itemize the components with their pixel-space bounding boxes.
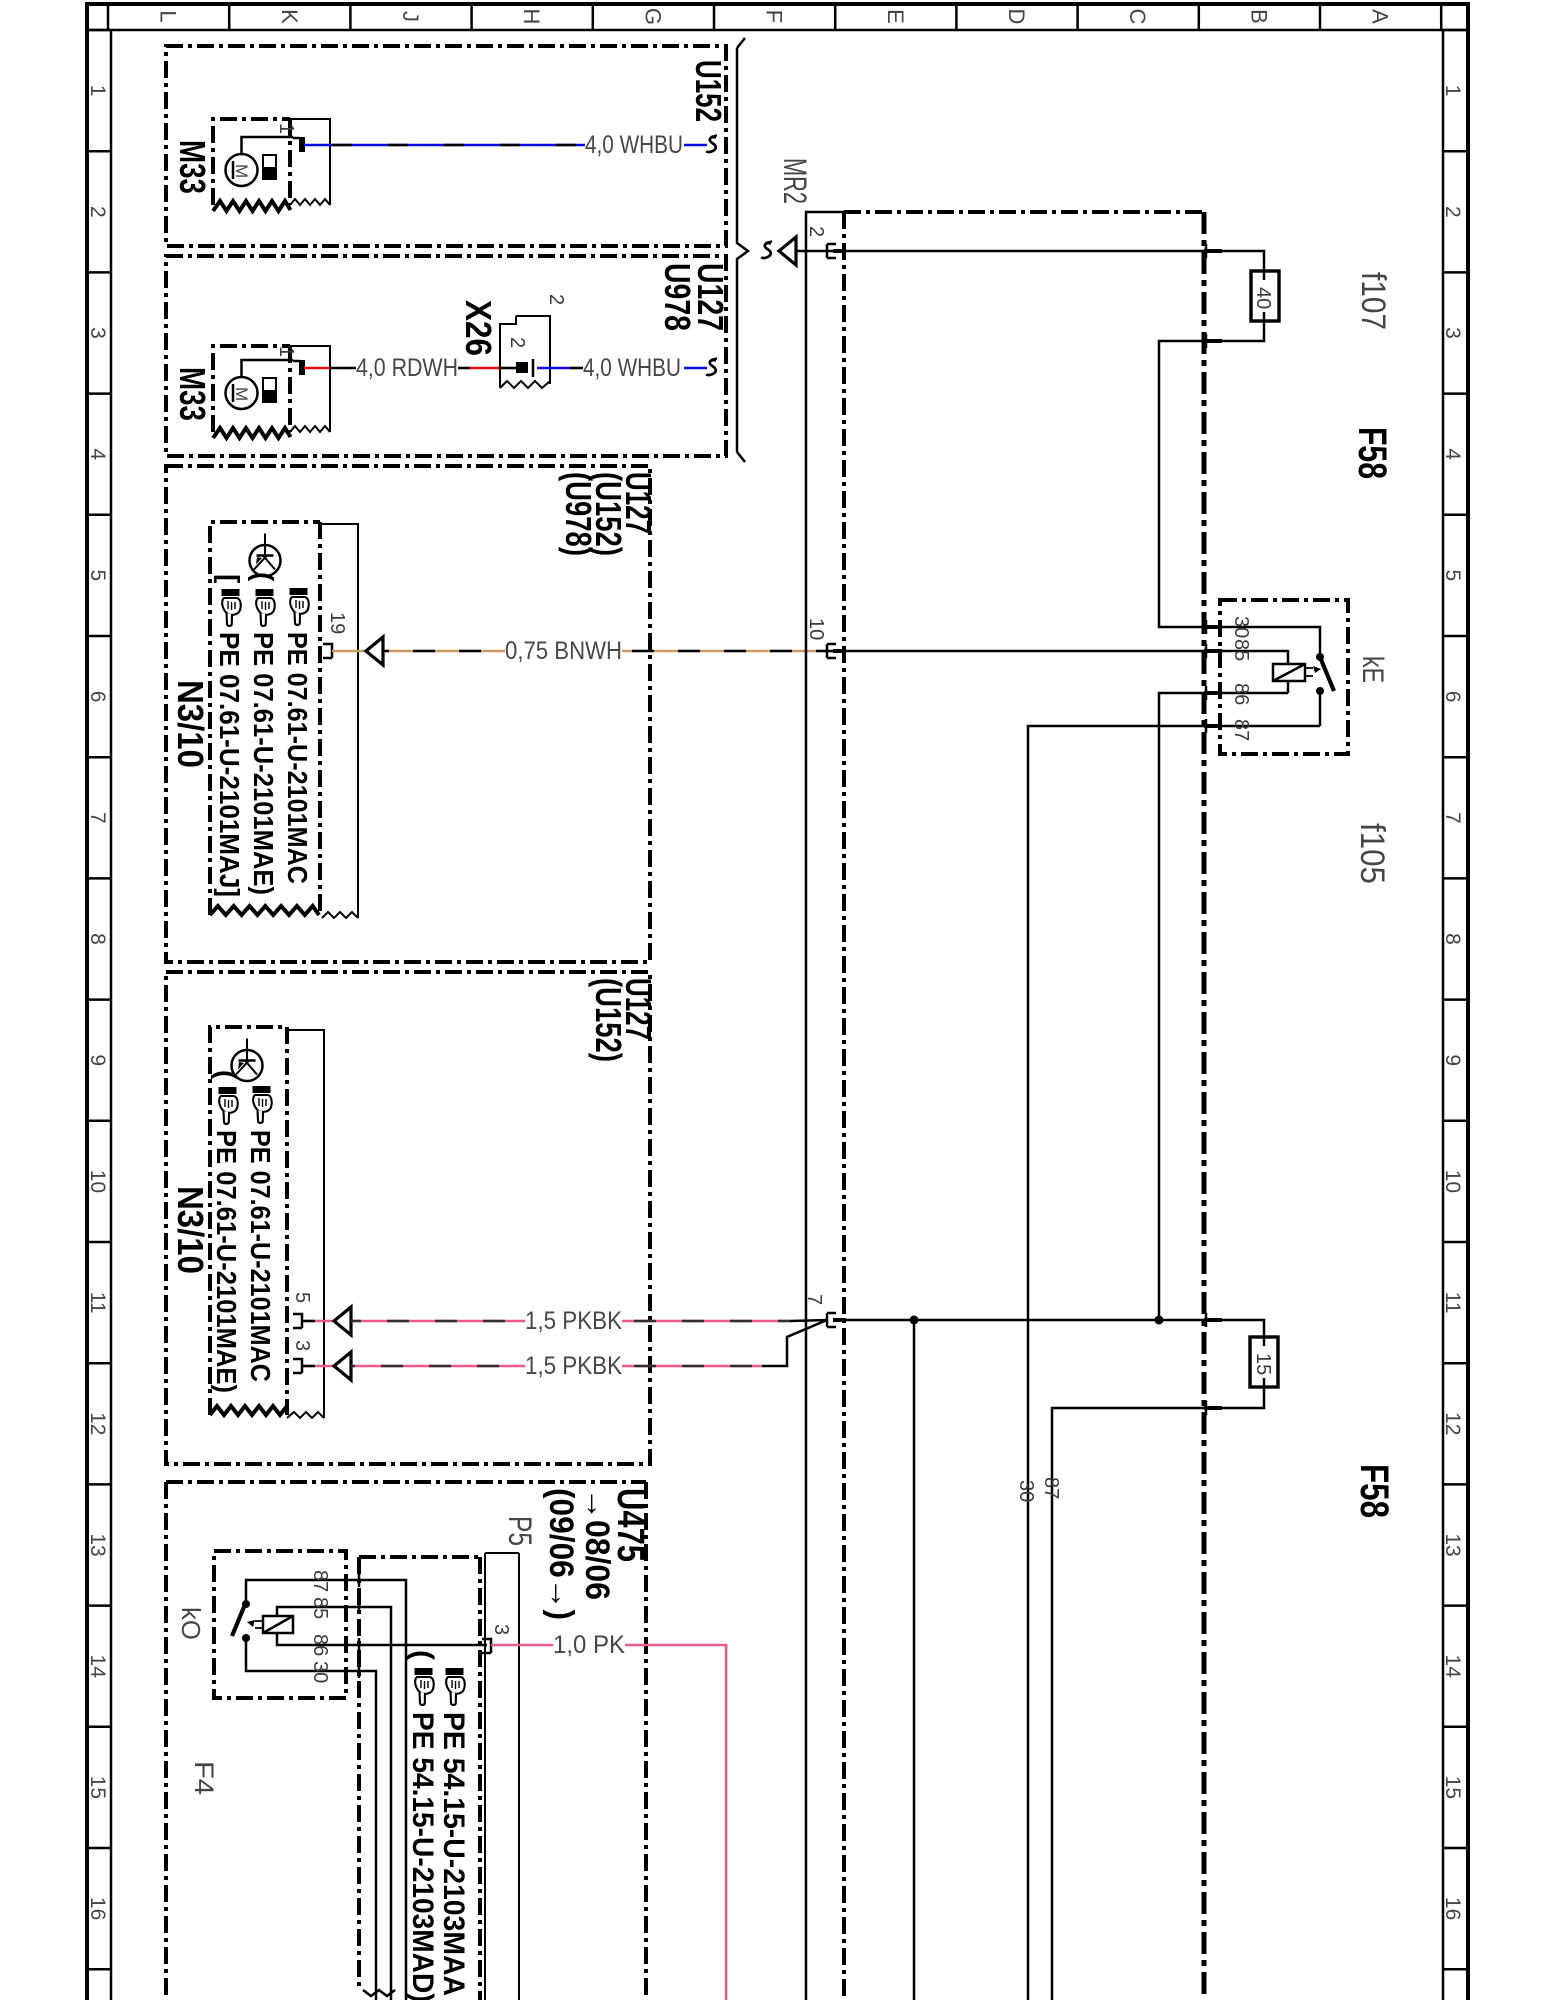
hand + (PE 54.15-U-2103MAD):	[406, 1650, 439, 2000]
svg-text:F4: F4	[189, 1761, 219, 1795]
svg-text:(U978): (U978)	[558, 472, 599, 556]
component M33 (wiper motor) box 2	[213, 346, 291, 438]
pin 1 bracket (M33 2)	[293, 360, 300, 363]
svg-text:(: (	[406, 1650, 439, 1660]
svg-text:12: 12	[86, 1412, 109, 1435]
svg-text:11: 11	[86, 1292, 109, 1314]
wire M33(2) to pin 1	[242, 360, 294, 377]
svg-text:86: 86	[1230, 683, 1252, 705]
wire fuse 40 bottom to kE pin 30	[1159, 321, 1320, 655]
svg-text:C: C	[1125, 9, 1150, 25]
wire pin3 to triangle	[302, 1365, 334, 1368]
hand + (PE 07.61-U-2101MAE) (2)	[211, 1070, 242, 1393]
svg-text:0,75 BNWH: 0,75 BNWH	[505, 637, 622, 665]
svg-text:6: 6	[86, 691, 109, 703]
companion solid box N3/10 (2)	[287, 1030, 324, 1418]
hand + [PE 07.61-U-2101MAJ] (1)	[214, 574, 245, 897]
svg-text:5: 5	[86, 570, 109, 582]
svg-text:10: 10	[1441, 1170, 1464, 1193]
wire 0,75 BNWH	[383, 650, 836, 653]
box U127 U978 (dash-dot)	[166, 256, 726, 456]
wire kO 85 down	[346, 1607, 391, 2000]
pin 19 bracket	[323, 644, 332, 658]
wire 4,0 WHBU (row 2)	[537, 367, 707, 370]
svg-text:M: M	[232, 164, 251, 178]
continuation triangle (pin 3)	[334, 1352, 351, 1380]
svg-text:9: 9	[86, 1054, 109, 1066]
wire fuse 15 bottom to line 87	[1052, 1387, 1264, 2000]
wire BNWH continues to kE pin 85	[846, 650, 1288, 653]
hook wire end (row 2)	[706, 358, 717, 375]
companion solid box M33 (2)	[290, 346, 330, 432]
svg-text:87: 87	[309, 1570, 331, 1592]
svg-text:M: M	[232, 387, 251, 401]
svg-text:PE 54.15-U-2103MAA: PE 54.15-U-2103MAA	[437, 1712, 470, 1996]
kE bus bracket pin 86	[1205, 686, 1208, 700]
junction dot (x=914)	[910, 1316, 919, 1325]
svg-text:PE 54.15-U-2103MAD):: PE 54.15-U-2103MAD):	[406, 1712, 439, 2000]
svg-text:19: 19	[326, 612, 348, 634]
svg-text:3: 3	[490, 1624, 512, 1635]
hand + PE 54.15-U-2103MAA	[437, 1668, 470, 1996]
svg-text:N3/10: N3/10	[170, 1186, 211, 1274]
wire pin5 to triangle	[302, 1320, 334, 1323]
motor symbol M33 (2)	[226, 377, 277, 409]
svg-text:U152: U152	[688, 60, 729, 122]
svg-text:F: F	[762, 10, 787, 23]
P5 pin 3 bracket	[482, 1639, 491, 1653]
svg-text:PE 07.61-U-2101MAJ]: PE 07.61-U-2101MAJ]	[214, 632, 245, 897]
svg-text:2: 2	[86, 206, 109, 218]
svg-text:5: 5	[291, 1292, 313, 1303]
svg-text:D: D	[1004, 9, 1029, 25]
svg-text:E: E	[883, 9, 908, 24]
box U152 (dash-dot)	[166, 46, 726, 246]
P5 solid box	[485, 1553, 519, 2000]
svg-text:L: L	[156, 10, 181, 22]
svg-text:10: 10	[86, 1170, 109, 1193]
svg-text:8: 8	[86, 933, 109, 945]
svg-text:G: G	[640, 8, 665, 25]
svg-text:1,5 PKBK: 1,5 PKBK	[525, 1307, 622, 1335]
svg-text:6: 6	[1441, 691, 1464, 703]
wire 1,5 PKBK (lower)	[351, 1365, 762, 1368]
svg-text:9: 9	[1441, 1054, 1464, 1066]
svg-text:2: 2	[545, 294, 567, 305]
wire stub to triangle	[332, 650, 366, 653]
kE internals	[1273, 650, 1334, 726]
bottom cut zigzag P5	[363, 1990, 395, 1996]
svg-text:1: 1	[275, 346, 297, 357]
svg-text:B: B	[1246, 9, 1271, 24]
svg-text:4,0 RDWH: 4,0 RDWH	[356, 354, 458, 382]
svg-text:11: 11	[1441, 1292, 1464, 1314]
pin 10 bracket on F58	[827, 644, 836, 658]
svg-text:K: K	[277, 9, 302, 24]
svg-text:MR2: MR2	[777, 158, 813, 204]
svg-text:12: 12	[1441, 1412, 1464, 1435]
svg-text:PE 07.61-U-2101MAE): PE 07.61-U-2101MAE)	[211, 1130, 242, 1393]
svg-text:kO: kO	[176, 1607, 206, 1640]
wire MR2 to pin 2 of F58	[796, 250, 836, 253]
svg-text:X26: X26	[458, 300, 499, 356]
wire kE pin 86	[1159, 693, 1288, 1320]
wire from F58 corner down (vertical at x=806)	[806, 212, 844, 2000]
motor symbol M33 (1)	[226, 154, 277, 186]
wire kE pin 87	[1028, 726, 1320, 2000]
svg-text:1,0 PK: 1,0 PK	[553, 1631, 625, 1659]
svg-text:A: A	[1368, 9, 1393, 24]
X26 pin 2 contact	[516, 362, 528, 373]
wire pin2 to fuse f107	[846, 251, 1264, 271]
transistor symbol (2)	[232, 1039, 263, 1082]
bus bracket (fuse 40 top)	[1205, 244, 1208, 258]
svg-text:16: 16	[86, 1897, 109, 1920]
wire 1,5 PKBK (upper)	[351, 1320, 828, 1321]
wire kO 87 down	[346, 1580, 406, 2000]
pin 1 bracket (M33 1)	[293, 137, 300, 140]
bus bracket (fuse 40 bottom)	[1205, 334, 1208, 348]
kE bus bracket pin 87	[1205, 719, 1208, 733]
svg-text:J: J	[398, 11, 423, 22]
continuation triangle (pin 19)	[366, 637, 383, 665]
svg-text:1: 1	[1441, 85, 1464, 97]
hook wire end (row 1)	[706, 135, 717, 152]
F58 bus line	[1202, 212, 1207, 2000]
companion solid box M33 (1)	[290, 119, 330, 205]
continuation triangle MR2	[779, 237, 796, 265]
fuse f107 (40)	[1251, 271, 1279, 321]
relay kO internals	[232, 1580, 346, 1671]
wire kO 30 down	[346, 1671, 376, 2000]
relay kO box dash-dot	[214, 1551, 346, 1698]
relay kE box dash-dot	[1220, 600, 1348, 754]
bus bracket (fuse 15 bottom)	[1205, 1401, 1208, 1415]
grouping brace for U152/U127 boxes	[737, 38, 748, 462]
svg-text:1: 1	[275, 123, 297, 134]
svg-text:U978: U978	[657, 263, 698, 331]
svg-text:30: 30	[1015, 1480, 1037, 1502]
companion solid box N3/10 (1)	[320, 524, 358, 918]
svg-text:15: 15	[1252, 1353, 1274, 1375]
kE bus bracket pin 85	[1205, 644, 1208, 658]
control unit N3/10 box (1)	[210, 522, 320, 915]
svg-text:(: (	[248, 572, 279, 582]
hand + (PE 07.61-U-2101MAE) (1)	[248, 572, 279, 895]
svg-text:3: 3	[291, 1340, 313, 1351]
hook at brace apex	[761, 241, 772, 258]
transistor symbol (1)	[250, 534, 281, 577]
svg-text:10: 10	[805, 618, 827, 640]
control unit N3/10 box (2)	[210, 1027, 287, 1415]
svg-text:4: 4	[1441, 448, 1464, 460]
pin 2 bracket on F58	[827, 244, 836, 258]
P5 connector dash-dot box	[359, 1557, 480, 2000]
fuse f105 (15)	[1250, 1337, 1278, 1387]
svg-text:(U152): (U152)	[588, 978, 629, 1062]
svg-text:85: 85	[1230, 639, 1252, 661]
svg-text:87: 87	[1040, 1477, 1062, 1499]
pin 5 bracket	[293, 1314, 302, 1328]
continuation triangle (pin 5)	[334, 1307, 351, 1335]
svg-text:F58: F58	[1352, 1464, 1396, 1518]
bus bracket (fuse 15 top)	[1205, 1313, 1208, 1327]
svg-text:4,0 WHBU: 4,0 WHBU	[585, 131, 683, 159]
kE bus bracket pin 30	[1205, 620, 1208, 634]
svg-text:40: 40	[1252, 287, 1274, 309]
junction dot (x=1159)	[1155, 1316, 1164, 1325]
hand + PE 07.61-U-2101MAC (1)	[282, 588, 313, 884]
wire 4,0 WHBU (row 1)	[304, 144, 707, 147]
svg-text:PE 07.61-U-2101MAC: PE 07.61-U-2101MAC	[282, 632, 313, 884]
P5 pin brackets for kO wires	[358, 1573, 361, 1678]
svg-text:4: 4	[86, 448, 109, 460]
svg-text:3: 3	[86, 327, 109, 339]
svg-text:5: 5	[1441, 570, 1464, 582]
svg-text:3: 3	[1441, 327, 1464, 339]
wire down from junction x=914	[913, 1320, 916, 2000]
box U127 (U152) dash-dot	[166, 972, 650, 1464]
svg-text:2: 2	[805, 226, 827, 237]
svg-text:13: 13	[1441, 1533, 1464, 1556]
svg-text:H: H	[519, 9, 544, 25]
wire kO 86 to P5 pin 3	[346, 1644, 487, 1647]
svg-text:N3/10: N3/10	[170, 680, 211, 768]
svg-text:7: 7	[86, 812, 109, 824]
svg-text:→08/06: →08/06	[578, 1488, 616, 1600]
svg-text:P5: P5	[502, 1516, 538, 1546]
svg-text:M33: M33	[172, 367, 213, 421]
wire pin7 line to fuse 15	[846, 1320, 1264, 1337]
wire 4,0 RDWH	[304, 367, 516, 370]
svg-text:F58: F58	[1350, 427, 1394, 479]
svg-text:2: 2	[506, 337, 528, 348]
pin 7 bracket on F58	[827, 1313, 836, 1327]
svg-text:f107: f107	[1354, 272, 1392, 330]
svg-text:1,5 PKBK: 1,5 PKBK	[525, 1352, 622, 1380]
svg-text:1: 1	[86, 85, 109, 97]
svg-text:86: 86	[309, 1634, 331, 1656]
svg-text:8: 8	[1441, 933, 1464, 945]
svg-text:M33: M33	[172, 140, 213, 194]
box F58 dash-dot	[844, 210, 1204, 214]
box U475 dash-dot	[166, 1482, 646, 2000]
svg-text:4,0 WHBU: 4,0 WHBU	[583, 354, 681, 382]
svg-text:30: 30	[309, 1661, 331, 1683]
svg-text:13: 13	[86, 1533, 109, 1556]
svg-text:15: 15	[86, 1776, 109, 1799]
svg-text:87: 87	[1230, 719, 1252, 741]
svg-text:PE 07.61-U-2101MAC: PE 07.61-U-2101MAC	[245, 1130, 276, 1382]
svg-text:[: [	[214, 574, 245, 583]
svg-text:(09/06→): (09/06→)	[542, 1488, 580, 1620]
pin 3 bracket	[293, 1359, 302, 1373]
svg-text:14: 14	[1441, 1655, 1464, 1679]
svg-text:16: 16	[1441, 1897, 1464, 1920]
wire M33(1) to pin 1	[242, 137, 294, 154]
svg-text:PE 07.61-U-2101MAE): PE 07.61-U-2101MAE)	[248, 632, 279, 895]
component M33 (wiper motor) box 1	[213, 119, 291, 211]
svg-text:(: (	[211, 1070, 242, 1080]
svg-text:7: 7	[1441, 812, 1464, 824]
svg-text:14: 14	[86, 1655, 109, 1679]
svg-text:15: 15	[1441, 1776, 1464, 1799]
svg-text:f105: f105	[1353, 823, 1391, 884]
wire pin3 merge up to pin 7	[762, 1320, 827, 1366]
box U127 (U152) (U978) dash-dot	[166, 466, 650, 962]
wire 1,0 PK	[491, 1645, 726, 2000]
svg-text:85: 85	[309, 1597, 331, 1619]
hand + PE 07.61-U-2101MAC (2)	[245, 1086, 276, 1382]
svg-text:kE: kE	[1356, 656, 1389, 683]
svg-text:30: 30	[1230, 616, 1252, 638]
frame column letter cells	[107, 4, 110, 30]
connector X26 solid box	[500, 316, 550, 388]
frame row number cells	[87, 29, 111, 32]
svg-text:2: 2	[1441, 206, 1464, 218]
